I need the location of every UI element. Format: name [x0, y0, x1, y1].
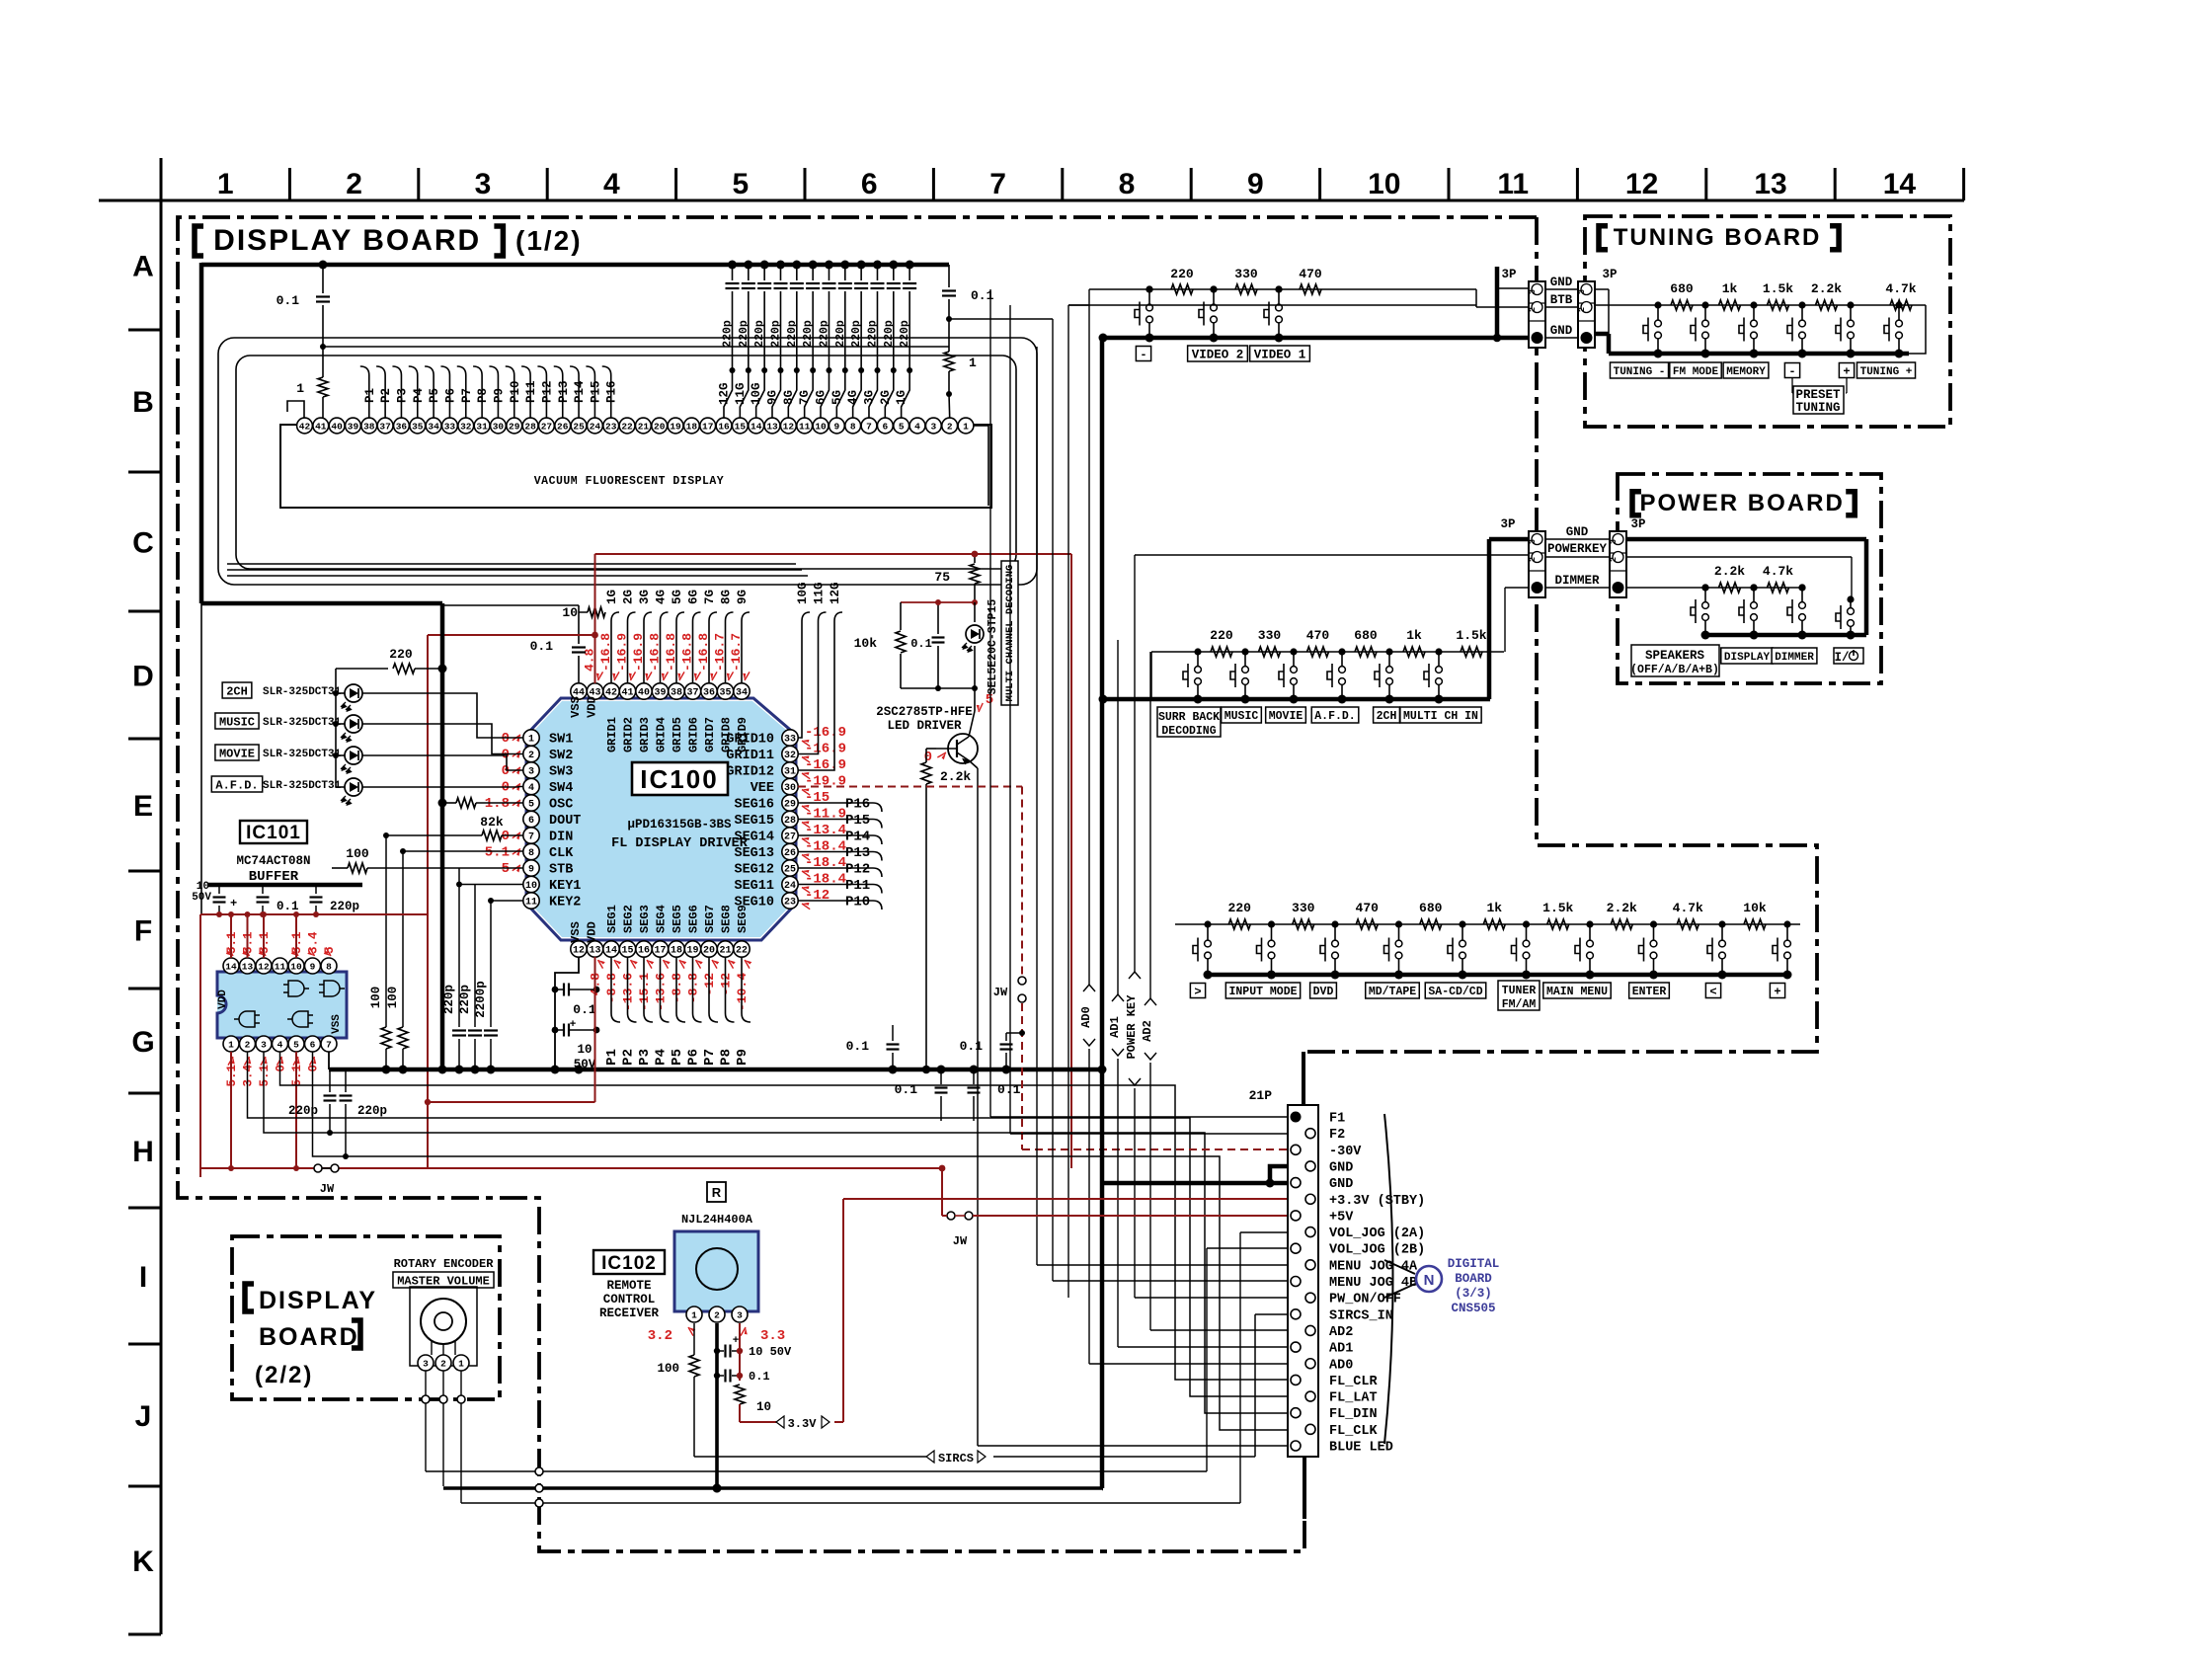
svg-text:220p: 220p: [288, 1104, 318, 1118]
svg-text:P12: P12: [540, 380, 554, 403]
capacitor 10 50V (IC101): [218, 885, 220, 894]
svg-text:A: A: [132, 251, 154, 283]
svg-text:SW2: SW2: [549, 749, 573, 763]
svg-text:1: 1: [969, 356, 977, 370]
node MASTER VOLUME: [393, 1272, 494, 1288]
svg-text:JW: JW: [993, 986, 1008, 999]
svg-text:23: 23: [784, 898, 796, 909]
resistor 10 (IC102): [735, 1385, 745, 1404]
svg-text:5: 5: [293, 1040, 299, 1051]
resistor 4.7k (tuning): [1890, 300, 1912, 310]
wire VDD pin13 red: [594, 957, 596, 1102]
node DISPLAY BOARD (1/2) title: [195, 226, 203, 256]
svg-text:4: 4: [603, 168, 620, 200]
svg-text:P10: P10: [845, 895, 870, 911]
capacitor 0.1 (decode): [937, 602, 939, 634]
node + label (tuning): [1839, 363, 1854, 378]
svg-text:DISPLAY BOARD: DISPLAY BOARD: [213, 224, 481, 257]
svg-text:32: 32: [460, 422, 472, 433]
svg-text:DISPLAY: DISPLAY: [259, 1287, 377, 1314]
wire enc line3: [461, 1502, 1240, 1504]
svg-text:SW3: SW3: [549, 765, 573, 780]
wire bold GND vertical: [1100, 338, 1105, 1183]
svg-text:VSS: VSS: [569, 696, 583, 718]
svg-text:1k: 1k: [1486, 901, 1502, 915]
svg-text:0: 0: [275, 1065, 288, 1072]
svg-text:F2: F2: [1329, 1128, 1345, 1143]
svg-text:5: 5: [899, 422, 905, 433]
svg-text:FL_DIN: FL_DIN: [1329, 1407, 1378, 1422]
svg-text:JW: JW: [320, 1182, 335, 1196]
node IC100 pins 44-34: [571, 683, 587, 699]
svg-text:POWER BOARD: POWER BOARD: [1639, 490, 1844, 516]
switch frow sw4: [1398, 924, 1400, 940]
node VFD pins 42-1: [958, 418, 974, 434]
svg-text:P14: P14: [573, 380, 587, 403]
svg-text:SEG4: SEG4: [655, 905, 669, 933]
op-amp IC100 outline: [526, 698, 796, 940]
svg-text:R: R: [712, 1185, 722, 1200]
svg-text:3.4: 3.4: [242, 1065, 256, 1087]
node R label: [707, 1182, 726, 1202]
node MAIN MENU label: [1543, 983, 1611, 998]
svg-text:220p: 220p: [357, 1104, 387, 1118]
svg-text:8: 8: [326, 962, 332, 973]
svg-text:CNS505: CNS505: [1451, 1302, 1495, 1315]
wire red +3.3V: [843, 1198, 1288, 1200]
node MOVIE label: [215, 745, 259, 760]
switch tuning sw3: [1753, 305, 1755, 320]
wire pin1 lead: [974, 426, 988, 506]
svg-text:P7: P7: [702, 1049, 718, 1066]
node TUNER FM/AM label: [1498, 981, 1540, 1010]
wire maroon VDD riser: [427, 635, 429, 1168]
wire VDD pin43 red: [594, 635, 596, 683]
wire surr rail: [1151, 651, 1504, 653]
svg-text:9: 9: [528, 865, 534, 876]
resistor 1k (frow): [1483, 919, 1505, 929]
svg-text:P6: P6: [443, 388, 457, 403]
wire IC101 top bold rail: [207, 883, 362, 888]
svg-text:SEG12: SEG12: [734, 863, 774, 878]
svg-text:9: 9: [1247, 168, 1264, 200]
svg-text:DIGITAL: DIGITAL: [1448, 1257, 1500, 1271]
svg-text:P4: P4: [654, 1049, 670, 1066]
node IC100 pins 1-11: [523, 730, 539, 746]
svg-text:+3.3V (STBY): +3.3V (STBY): [1329, 1194, 1425, 1209]
svg-text:3P: 3P: [1501, 268, 1516, 281]
svg-text:REMOTE: REMOTE: [606, 1279, 651, 1293]
svg-text:VOL_JOG (2A): VOL_JOG (2A): [1329, 1227, 1425, 1241]
svg-text:5G: 5G: [671, 590, 684, 604]
svg-text:D: D: [132, 661, 154, 693]
node IC101 label: [240, 821, 307, 843]
wire pin42 stub: [287, 401, 304, 418]
svg-text:MULTI CH IN: MULTI CH IN: [1403, 710, 1478, 723]
svg-text:SEG1: SEG1: [605, 905, 619, 933]
svg-text:22: 22: [621, 422, 633, 433]
node A.F.D. label: [1311, 707, 1359, 723]
svg-text:1.5k: 1.5k: [1456, 628, 1486, 643]
wire pin4 line: [280, 1052, 1289, 1380]
svg-text:31: 31: [784, 767, 796, 778]
switch power sw2: [1753, 588, 1755, 602]
svg-text:SLR-325DCT31: SLR-325DCT31: [263, 780, 342, 792]
capacitor 0.1 (IC102): [714, 1373, 720, 1379]
switch frow sw6: [1526, 924, 1528, 940]
svg-text:35: 35: [412, 422, 424, 433]
wire KEY2 line: [491, 900, 523, 902]
svg-text:5.1: 5.1: [485, 845, 510, 861]
svg-text:14: 14: [225, 962, 237, 973]
svg-text:2.2k: 2.2k: [940, 769, 971, 784]
node DISPLAY BOARD (1/2) outline: [178, 217, 1537, 1551]
node TUNING - label: [1610, 362, 1668, 378]
svg-text:26: 26: [784, 848, 796, 859]
svg-text:10: 10: [815, 422, 827, 433]
svg-text:40: 40: [331, 422, 343, 433]
svg-text:SEG16: SEG16: [734, 798, 774, 813]
wire VSS pin12: [555, 957, 579, 1069]
svg-text:220p: 220p: [802, 320, 815, 348]
svg-text:SW1: SW1: [549, 733, 573, 748]
svg-text:12: 12: [783, 422, 795, 433]
svg-text:220: 220: [1170, 267, 1194, 281]
svg-text:GRID9: GRID9: [736, 717, 750, 752]
svg-text:1G: 1G: [895, 390, 908, 405]
wire KEY1 line: [459, 884, 523, 886]
resistor 1 (pin2): [944, 352, 954, 371]
svg-text:FL_LAT: FL_LAT: [1329, 1391, 1378, 1406]
capacitor 10 50V (IC100 bot): [552, 1027, 559, 1034]
svg-text:VSS: VSS: [331, 1014, 343, 1034]
svg-text:1: 1: [691, 1310, 697, 1321]
svg-text:FL_CLK: FL_CLK: [1329, 1424, 1379, 1439]
svg-text:3: 3: [737, 1310, 743, 1321]
svg-text:3.3V: 3.3V: [788, 1417, 818, 1431]
svg-text:ENTER: ENTER: [1632, 986, 1667, 998]
svg-text:2.2k: 2.2k: [1714, 564, 1745, 579]
resistor 4.7k (power): [1768, 583, 1789, 593]
gate U1C: [234, 1011, 260, 1027]
svg-text:15: 15: [735, 422, 747, 433]
svg-text:POWERKEY: POWERKEY: [1547, 542, 1608, 556]
wire VSS pin44 feed: [578, 656, 580, 683]
wire bold VSS left loop: [199, 263, 204, 603]
svg-text:GND: GND: [1329, 1177, 1353, 1192]
node SURR BACK DECODING: [1157, 707, 1221, 737]
svg-text:SEG8: SEG8: [720, 905, 734, 933]
svg-text:28: 28: [784, 816, 796, 827]
svg-text:3P: 3P: [1500, 517, 1515, 531]
gate U1D: [287, 1011, 313, 1027]
svg-text:P9: P9: [492, 388, 506, 403]
wire encoder pin lines: [425, 1371, 427, 1471]
encoder pins: [418, 1355, 434, 1371]
resistor 220 (LED supply): [336, 668, 388, 670]
svg-text:<: <: [1709, 985, 1716, 998]
svg-text:P4: P4: [412, 387, 426, 403]
svg-text:1k: 1k: [1406, 628, 1422, 643]
svg-text:P10: P10: [509, 380, 522, 403]
svg-text:BTB: BTB: [1550, 293, 1573, 307]
capacitor 220p (H1): [329, 1069, 331, 1092]
svg-text:0.1: 0.1: [276, 900, 299, 913]
svg-text:28: 28: [524, 422, 536, 433]
svg-text:41: 41: [621, 688, 633, 699]
resistor 220 (surr): [1211, 647, 1232, 657]
svg-text:25: 25: [573, 422, 585, 433]
svg-text:3: 3: [261, 1040, 267, 1051]
switch tuning sw1: [1657, 305, 1659, 320]
svg-text:2: 2: [1528, 307, 1538, 312]
node IC100 label: [632, 762, 728, 795]
svg-text:75: 75: [934, 570, 950, 585]
node < label: [1705, 984, 1720, 998]
svg-text:8: 8: [1119, 168, 1136, 200]
node DISPLAY BOARD (2/2) title t1: [245, 1284, 254, 1311]
capacitor 0.1 (G1): [892, 1025, 894, 1041]
wire maroon VDD IC101 rail: [200, 913, 428, 915]
svg-text:13: 13: [766, 422, 778, 433]
svg-text:SPEAKERS: SPEAKERS: [1645, 649, 1705, 663]
svg-text:SA-CD/CD: SA-CD/CD: [1428, 986, 1482, 998]
svg-text:2.2k: 2.2k: [1607, 901, 1637, 915]
svg-text:8G: 8G: [720, 590, 734, 604]
wire IC100 10G-12G leads: [798, 612, 810, 738]
svg-text:P9: P9: [735, 1049, 750, 1066]
svg-text:GND: GND: [1329, 1160, 1353, 1175]
resistor 220 (VIDEO): [1171, 284, 1193, 294]
svg-text:P6: P6: [686, 1049, 702, 1066]
resistor 680 (surr): [1355, 647, 1377, 657]
svg-text:3P: 3P: [1630, 517, 1645, 531]
svg-text:1.5k: 1.5k: [1763, 281, 1793, 296]
svg-text:19: 19: [686, 946, 698, 957]
svg-text:3.3: 3.3: [760, 1328, 785, 1344]
svg-text:32: 32: [784, 751, 796, 761]
svg-text:220p: 220p: [738, 320, 750, 348]
svg-text:P16: P16: [845, 797, 870, 813]
svg-text:8: 8: [528, 848, 534, 859]
svg-text:FM MODE: FM MODE: [1673, 366, 1719, 378]
svg-text:10 50V: 10 50V: [749, 1345, 792, 1359]
svg-text:P16: P16: [605, 380, 619, 403]
svg-text:2: 2: [1528, 557, 1538, 562]
wire BTB line: [1068, 304, 1476, 306]
svg-text:VOL_JOG (2B): VOL_JOG (2B): [1329, 1243, 1425, 1258]
svg-text:3: 3: [1528, 289, 1538, 294]
svg-text:39: 39: [654, 688, 666, 699]
wire pin3 line: [264, 1052, 1288, 1413]
resistor 1.5k (surr): [1461, 647, 1482, 657]
resistor 4.7k (frow): [1677, 919, 1698, 929]
resistor 1k (tuning): [1719, 300, 1741, 310]
svg-text:P5: P5: [428, 388, 441, 403]
node MUSIC label: [1222, 707, 1262, 723]
svg-text:P11: P11: [524, 380, 538, 403]
svg-text:21P: 21P: [1249, 1088, 1273, 1103]
wire POWER KEY: [1134, 555, 1136, 973]
capacitor 220p/220p/2200p bank: [458, 868, 460, 1027]
svg-text:DIMMER: DIMMER: [1775, 652, 1814, 664]
svg-text:N: N: [1424, 1272, 1435, 1289]
svg-text:TUNING BOARD: TUNING BOARD: [1614, 224, 1822, 251]
wire 3P link wires: [1545, 288, 1578, 290]
svg-text:220p: 220p: [850, 320, 863, 348]
svg-text:LED DRIVER: LED DRIVER: [887, 719, 962, 733]
wire pin2 line: [248, 1052, 1289, 1396]
svg-text:MENU JOG 4A: MENU JOG 4A: [1329, 1259, 1418, 1274]
svg-text:P13: P13: [845, 845, 870, 861]
svg-text:2: 2: [346, 168, 362, 200]
svg-text:BLUE LED: BLUE LED: [1329, 1441, 1393, 1456]
wire DIMMER: [1505, 587, 1529, 589]
resistor 10k (frow): [1744, 919, 1766, 929]
wire enc line2 bold: [443, 1486, 1102, 1490]
wire VFD P1-P16 leads: [360, 366, 369, 418]
svg-text:MOVIE: MOVIE: [219, 747, 255, 760]
svg-text:4: 4: [528, 783, 534, 794]
svg-text:13: 13: [1754, 168, 1786, 200]
svg-text:SEG6: SEG6: [687, 905, 701, 933]
wire power link wires: [1545, 538, 1610, 540]
svg-text:6: 6: [861, 168, 878, 200]
switch tuning sw5: [1850, 305, 1852, 320]
resistor (OSC): [442, 802, 456, 804]
svg-text:2G: 2G: [879, 390, 893, 405]
svg-text:AD0: AD0: [1329, 1358, 1353, 1373]
svg-text:2: 2: [528, 751, 534, 761]
svg-text:26: 26: [557, 422, 569, 433]
svg-text:680: 680: [1419, 901, 1443, 915]
switch frow sw3: [1334, 924, 1336, 940]
svg-text:VDD: VDD: [586, 921, 599, 943]
svg-text:36: 36: [703, 688, 715, 699]
svg-text:10: 10: [1368, 168, 1400, 200]
svg-text:6: 6: [882, 422, 888, 433]
svg-text:TUNING +: TUNING +: [1860, 366, 1913, 378]
svg-text:2CH: 2CH: [226, 684, 248, 698]
svg-text:DECODING: DECODING: [1161, 725, 1216, 738]
node 2CH label: [222, 682, 252, 698]
svg-text:JW: JW: [953, 1234, 968, 1248]
svg-text:10k: 10k: [1743, 901, 1767, 915]
svg-text:220p: 220p: [899, 320, 911, 348]
svg-text:0.1: 0.1: [749, 1370, 770, 1384]
svg-text:4G: 4G: [655, 590, 669, 604]
svg-text:3P: 3P: [1602, 268, 1617, 281]
svg-text:24: 24: [590, 422, 601, 433]
capacitor 220p (IC101): [315, 885, 317, 894]
node > label: [1190, 984, 1205, 998]
svg-text:220p: 220p: [866, 320, 879, 348]
switch power sw1: [1704, 588, 1706, 602]
svg-text:11G: 11G: [813, 582, 827, 604]
svg-text:6: 6: [528, 816, 534, 827]
svg-text:37: 37: [686, 688, 698, 699]
svg-text:P8: P8: [476, 388, 490, 403]
svg-text:3: 3: [1609, 539, 1619, 544]
wire VFD inner routing loop: [236, 356, 1016, 569]
resistor 1k (surr): [1403, 647, 1425, 657]
wire maroon right vertical: [1070, 554, 1072, 1168]
svg-text:SEG11: SEG11: [734, 879, 774, 894]
svg-text:1: 1: [458, 1359, 464, 1370]
svg-text:10: 10: [577, 1043, 592, 1057]
svg-text:100: 100: [369, 987, 383, 1009]
wire pin6 line: [313, 1052, 1289, 1430]
svg-text:21: 21: [719, 946, 731, 957]
svg-text:DOUT: DOUT: [549, 814, 581, 829]
svg-text:1G: 1G: [605, 590, 619, 604]
svg-text:MC74ACT08N: MC74ACT08N: [236, 854, 310, 868]
svg-text:35: 35: [719, 688, 731, 699]
svg-text:100: 100: [346, 846, 369, 861]
switch surr sw4: [1341, 652, 1343, 667]
svg-text:42: 42: [299, 422, 311, 433]
svg-text:0.1: 0.1: [846, 1039, 870, 1054]
svg-text:7G: 7G: [703, 590, 717, 604]
svg-text:12: 12: [258, 962, 270, 973]
svg-text:J: J: [135, 1400, 152, 1433]
svg-text:OSC: OSC: [549, 798, 573, 813]
resistor 10 (1G line): [588, 607, 605, 617]
wire power bold rail: [1705, 633, 1866, 638]
svg-text:DIMMER: DIMMER: [1554, 574, 1600, 588]
svg-text:220p: 220p: [442, 985, 456, 1014]
resistor 470 (VIDEO): [1300, 284, 1321, 294]
svg-text:2: 2: [245, 1040, 251, 1051]
svg-text:7: 7: [528, 832, 534, 843]
node MUSIC label: [215, 713, 259, 729]
node DISPLAY label: [1721, 648, 1773, 664]
svg-text:0.1: 0.1: [895, 1082, 918, 1097]
svg-text:3G: 3G: [638, 590, 652, 604]
encoder body: [410, 1287, 477, 1366]
wire vert x1082: [1067, 305, 1069, 1298]
svg-text:BOARD: BOARD: [259, 1323, 359, 1351]
node MEMORY label: [1723, 362, 1769, 378]
svg-text:2: 2: [1577, 307, 1587, 312]
svg-text:GRID4: GRID4: [655, 717, 669, 752]
svg-text:0: 0: [502, 731, 510, 747]
capacitor 0.1 (IC100 top): [572, 646, 586, 648]
wire 21P brace: [1384, 1114, 1393, 1444]
svg-text:220: 220: [389, 647, 413, 662]
wire enc line1: [426, 1470, 1207, 1472]
svg-text:330: 330: [1258, 628, 1282, 643]
node DIMMER label: [1772, 648, 1817, 664]
LED indicator (decode): [974, 602, 976, 622]
svg-text:GRID8: GRID8: [720, 717, 734, 752]
node MOVIE label: [1266, 707, 1306, 723]
wire GND rail: [329, 1068, 1102, 1072]
svg-text:10G: 10G: [796, 582, 810, 604]
svg-text:MAIN MENU: MAIN MENU: [1546, 986, 1608, 998]
node TUNING BOARD title: [1599, 226, 1608, 250]
svg-text:SEG5: SEG5: [671, 905, 684, 933]
svg-text:8: 8: [850, 422, 856, 433]
node N circle: [1416, 1266, 1442, 1292]
svg-text:7: 7: [326, 1040, 332, 1051]
svg-text:20: 20: [654, 422, 666, 433]
switch frow sw1: [1207, 924, 1209, 940]
svg-text:DVD: DVD: [1313, 986, 1334, 998]
wire tuning rail: [1595, 304, 1926, 306]
svg-text:9: 9: [834, 422, 840, 433]
switch tuning sw6: [1898, 305, 1900, 320]
